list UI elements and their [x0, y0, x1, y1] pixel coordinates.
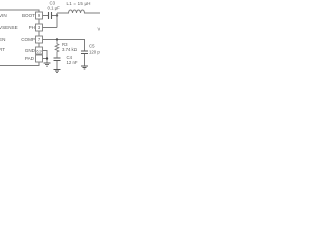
- svg-text:COMP: COMP: [21, 37, 35, 42]
- wire GND pin: [43, 51, 48, 63]
- wire PAD pin: [43, 58, 48, 60]
- node junction dot COMP/R3: [56, 38, 58, 40]
- wire C5 to ground: [84, 54, 86, 66]
- svg-text:12 nF: 12 nF: [67, 60, 78, 65]
- wire C4 to ground: [56, 61, 58, 69]
- pin box (PAD): [36, 55, 43, 62]
- IC U1 outline (cropped at left edge): [0, 10, 39, 66]
- svg-text:RT: RT: [0, 47, 5, 52]
- pin 7 box (COMP): [36, 36, 43, 43]
- svg-text:120 pF: 120 pF: [89, 50, 100, 55]
- svg-text:PAD: PAD: [25, 56, 35, 61]
- wire PH pin to net: [43, 27, 58, 29]
- resistor R3: [55, 40, 59, 58]
- svg-text:0.1 µF: 0.1 µF: [48, 6, 61, 11]
- capacitor C5: [81, 51, 88, 54]
- svg-text:PH: PH: [29, 25, 35, 30]
- inductor L1: [57, 10, 100, 13]
- pin 9 box (BOOT): [36, 12, 43, 19]
- svg-text:VSENSE: VSENSE: [0, 25, 18, 30]
- wire PH net vertical: [56, 13, 58, 28]
- svg-text:C5: C5: [89, 44, 95, 49]
- svg-text:EN: EN: [0, 37, 5, 42]
- svg-text:L1 = 15 µH: L1 = 15 µH: [67, 1, 91, 6]
- svg-text:6,9: 6,9: [36, 49, 41, 53]
- svg-text:VIN: VIN: [0, 13, 7, 18]
- ground for C4: [54, 70, 61, 73]
- pin 6,9 box (GND): [36, 47, 43, 54]
- wire BOOT to C3: [43, 15, 49, 17]
- svg-text:V: V: [98, 27, 101, 32]
- wire COMP to C5 branch: [43, 40, 85, 51]
- svg-text:BOOT: BOOT: [22, 13, 35, 18]
- pin 3 box (PH): [36, 24, 43, 31]
- node junction dot PAD/GND: [46, 57, 48, 59]
- node junction dot C3/PH: [56, 14, 58, 16]
- svg-text:3.74 kΩ: 3.74 kΩ: [62, 47, 78, 52]
- ground for GND/PAD: [44, 63, 51, 66]
- svg-text:GND: GND: [25, 48, 36, 53]
- capacitor C4: [54, 58, 61, 61]
- ground for C5: [81, 66, 88, 69]
- wire C3 to PH node: [52, 15, 57, 17]
- capacitor C3: [49, 12, 52, 19]
